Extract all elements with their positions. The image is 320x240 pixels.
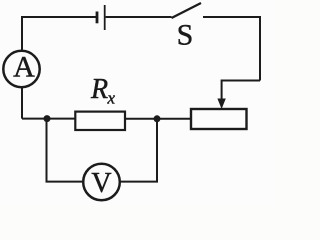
junction node (right dot) — [154, 115, 161, 122]
wire: resistor Rx to left junction and left corner — [22, 118, 75, 120]
battery: long (positive) plate — [104, 5, 106, 30]
svg-text:R: R — [90, 74, 108, 105]
wire: rheostat to junction node right — [157, 118, 191, 120]
switch S: open blade — [172, 3, 202, 18]
svg-text:A: A — [13, 51, 35, 84]
wire: voltmeter branch, left drop — [47, 119, 84, 182]
wire: left vertical top segment (top-left corner to ammeter) — [22, 17, 96, 119]
svg-text:x: x — [107, 89, 116, 108]
battery: short (negative) plate — [96, 12, 99, 24]
wire: junction right to resistor Rx — [125, 118, 157, 120]
wire: jog from right side to rheostat wiper arrow — [222, 81, 260, 101]
wire: voltmeter branch, right rise — [120, 119, 157, 182]
svg-text:S: S — [177, 18, 194, 51]
wire: battery to switch — [106, 16, 172, 18]
wire: switch right contact to top-right corner, down right side — [203, 17, 260, 81]
junction node (left dot) — [44, 115, 51, 122]
svg-text:V: V — [91, 168, 111, 199]
rheostat wiper arrowhead — [217, 99, 225, 110]
resistor Rx box — [75, 112, 125, 130]
rheostat (variable resistor) box — [191, 109, 247, 129]
voltmeter V (circle) — [83, 164, 120, 201]
ammeter A (circle) — [3, 51, 39, 87]
